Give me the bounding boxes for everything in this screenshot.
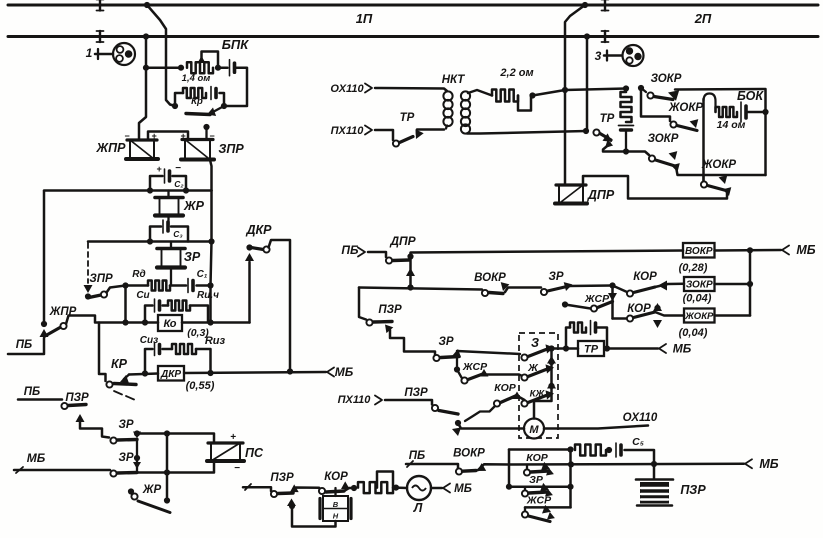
- arrow ЗР-br b: [545, 489, 553, 497]
- node ЖР-bl: [128, 488, 134, 494]
- svg-text:Сиз: Сиз: [140, 335, 158, 346]
- svg-text:1,4 ом: 1,4 ом: [182, 73, 211, 84]
- wire signal-1 terminal: [95, 49, 113, 59]
- contact arm ТР-left: [400, 137, 414, 143]
- contact bar ВОКР-m: [489, 293, 503, 294]
- wire З chain: [534, 349, 552, 419]
- arrow chain b: [547, 381, 556, 389]
- arrow ЗР-br a: [540, 483, 549, 492]
- arrow Ж: [546, 364, 555, 373]
- svg-text:БПК: БПК: [222, 37, 250, 52]
- box ЗОКР: [684, 277, 715, 291]
- svg-text:ЗР: ЗР: [438, 336, 453, 348]
- label ПХ110: [331, 125, 365, 137]
- wire ПЗР-b to М: [458, 423, 524, 429]
- svg-text:Rи.ч: Rи.ч: [197, 290, 219, 301]
- relay ЗПР: [181, 140, 214, 160]
- node x167 top: [164, 430, 170, 436]
- node rail2-right junction: [584, 33, 590, 39]
- label ЗПР contact: [89, 273, 113, 285]
- node lamp row x354: [351, 485, 357, 491]
- node row2m x612: [609, 282, 615, 288]
- node row3 right: [207, 282, 213, 288]
- contact circle КОР-b: [494, 400, 500, 406]
- capacitor С5: [616, 443, 621, 457]
- label Кр: [191, 96, 203, 107]
- node rowA x571: [567, 446, 573, 452]
- insulated joint rail1 left: [97, 0, 104, 11]
- wire КОР-b out: [517, 396, 525, 401]
- wire Сиз mid: [163, 348, 173, 351]
- label C3: [173, 229, 182, 239]
- node ЗПР pivot: [85, 293, 91, 299]
- wire ЗР-b out: [457, 351, 520, 354]
- wire ВОКР-ЗР: [505, 288, 541, 293]
- wire feed top-right: [533, 89, 627, 96]
- node stub above ЗПР: [203, 124, 209, 140]
- wire ЖОКР-low stub: [702, 175, 704, 181]
- svg-text:ЖСР: ЖСР: [526, 495, 552, 507]
- signal head 1: [113, 43, 135, 65]
- resistor ТР loop: [570, 323, 586, 333]
- contact bar КОР-br: [531, 471, 548, 472]
- node chain a: [548, 359, 554, 365]
- arrow ЖОКР-low b: [723, 187, 732, 196]
- wire lamp to МБ: [431, 487, 442, 490]
- chevron МБ mid: [659, 344, 666, 353]
- node З out: [548, 345, 554, 351]
- arrow ПЗР-left: [76, 414, 85, 422]
- wire rowB: [509, 463, 744, 466]
- label ЖСР bottom-right: [526, 495, 552, 507]
- node 14om row start: [143, 65, 149, 71]
- label КР: [111, 357, 128, 371]
- label НКТ: [442, 74, 466, 86]
- arrow ЖПР: [40, 329, 49, 337]
- svg-text:ПС: ПС: [245, 446, 264, 460]
- lamp Л: [407, 476, 431, 500]
- svg-text:Ко: Ко: [163, 318, 176, 330]
- contact arm КОР-b: [501, 396, 517, 403]
- wire row3 a: [126, 284, 149, 287]
- relay coil ЗР: [157, 249, 185, 268]
- node row4 x145: [142, 319, 148, 325]
- label plus C2: [156, 164, 162, 174]
- label 14 ом: [717, 119, 746, 131]
- label 2П: [694, 11, 712, 26]
- arrow ЗР-m: [564, 282, 573, 291]
- arrow ДПР down: [406, 268, 415, 276]
- svg-text:ЗР: ЗР: [548, 271, 563, 283]
- wire ЗОКР to rail: [715, 283, 751, 286]
- contact arm ЖСР-br: [529, 516, 551, 522]
- dashes КР released: [114, 391, 134, 400]
- node ДПР movable: [407, 253, 413, 259]
- label ПБ mid: [341, 243, 359, 257]
- wire cap to corner: [220, 93, 225, 106]
- svg-text:НКТ: НКТ: [442, 74, 466, 86]
- wire bottom row: [525, 506, 571, 509]
- contact bar ПЗР-m: [374, 320, 393, 324]
- wire choke stub: [625, 130, 627, 152]
- arrow ЖОКР-low a: [719, 175, 728, 184]
- label БОК: [737, 89, 764, 103]
- node x750 mid: [747, 281, 753, 287]
- contact circle ЗР-br: [522, 490, 528, 496]
- arrow ЖСР-b: [480, 369, 489, 377]
- label ТР right: [600, 113, 615, 125]
- label ВОКР bottom: [453, 448, 485, 460]
- label БПК: [222, 37, 250, 52]
- label minus ЗПР: [209, 131, 215, 141]
- wire to ЗОКР-low: [626, 152, 649, 156]
- wire ЖР stub top: [167, 191, 169, 198]
- wire ЖОКР-low to ДПР: [583, 176, 727, 199]
- battery БПК: [230, 60, 235, 76]
- wire rail 1П: [8, 4, 818, 7]
- relay ДПР: [555, 185, 587, 204]
- contact circle ЖОКР-low: [701, 181, 707, 187]
- svg-text:МБ: МБ: [335, 365, 354, 379]
- svg-text:−: −: [175, 163, 181, 174]
- label minus C2: [175, 163, 181, 174]
- wire row2: [88, 240, 212, 243]
- relay ПС: [207, 443, 244, 461]
- label МБ bottom: [759, 457, 778, 471]
- contact bar ЗР-b: [441, 357, 459, 358]
- wire ЖСР-b out: [484, 375, 525, 378]
- wire row3-row4 link: [124, 286, 127, 323]
- capacitor C3: [163, 220, 168, 233]
- label ВОКР mid: [474, 272, 506, 284]
- node row1 C2-right: [183, 187, 189, 193]
- label С5: [632, 436, 644, 448]
- label МБ left: [27, 451, 46, 465]
- svg-text:(0,28): (0,28): [679, 262, 708, 274]
- node ЖСР-b top: [454, 366, 460, 372]
- chevron МБ lamp: [443, 484, 450, 493]
- wire ЗР stub top: [170, 242, 172, 249]
- contact bar КР: [114, 384, 136, 385]
- label ОХ110 bottom: [623, 412, 658, 424]
- resistor Кр branch: [183, 88, 206, 98]
- relay ЖПР: [126, 140, 158, 159]
- svg-text:ТР: ТР: [600, 113, 615, 125]
- node chain b: [548, 383, 554, 389]
- svg-text:МБ: МБ: [454, 483, 472, 495]
- wire ДПР down: [409, 257, 412, 288]
- wire ПХ110 bottom: [385, 400, 432, 405]
- svg-text:В: В: [333, 500, 339, 509]
- arrow ЖОКР-up: [690, 119, 699, 128]
- wire ВОКР-b out: [478, 464, 509, 470]
- node ЗР-u movable: [134, 430, 140, 436]
- contact bar ЗР-br: [529, 492, 547, 493]
- wire rowA: [509, 448, 571, 451]
- node ТР loop left: [563, 345, 569, 351]
- wire Сиз left: [145, 349, 153, 373]
- contact circle ЗПР: [101, 291, 107, 297]
- label ЖР: [183, 199, 205, 213]
- svg-text:1: 1: [86, 46, 93, 60]
- contact arm ЗОКР-low: [656, 160, 676, 166]
- node ЖПР pivot: [41, 321, 47, 327]
- arrow ЗПР: [84, 285, 93, 293]
- wire ОХ110: [375, 88, 447, 91]
- label ЖПР contact: [49, 306, 77, 318]
- arrow КОР-br a: [541, 462, 550, 471]
- wire mid row: [509, 485, 571, 488]
- wire rail1 dropper: [147, 5, 175, 106]
- contact circle ТР-right: [593, 129, 599, 135]
- label (0,28): [679, 262, 708, 274]
- wire row ВОКР top: [411, 251, 684, 257]
- label ДКР contact: [245, 223, 272, 237]
- svg-text:+: +: [230, 432, 236, 443]
- node НКТ bottom right: [583, 128, 589, 134]
- node ПЗР-b movable: [455, 420, 461, 426]
- wire lamp row in: [243, 484, 271, 491]
- arrow З: [546, 344, 555, 353]
- wire ПС bottom: [137, 461, 214, 473]
- arrow КОР-2 up: [653, 303, 662, 311]
- contact circle ЗР-u: [110, 437, 116, 443]
- wire ЗР stub bottom: [170, 268, 172, 286]
- contact arm ЗР-m: [548, 286, 570, 291]
- label 2,2 ом: [499, 67, 533, 79]
- arrow ВН loop: [287, 499, 296, 507]
- wire to lamp: [396, 486, 407, 489]
- wire КОР-2 out: [655, 312, 684, 316]
- svg-text:3: 3: [595, 49, 602, 63]
- svg-text:ЖОКР: ЖОКР: [684, 311, 714, 322]
- label ПЗР lamp: [270, 472, 294, 484]
- node КОР-2 arm: [654, 305, 660, 311]
- svg-text:ПХ110: ПХ110: [338, 394, 372, 406]
- svg-text:(0,55): (0,55): [186, 380, 215, 392]
- svg-text:Кр: Кр: [191, 96, 203, 107]
- node row5 x145: [142, 370, 148, 376]
- contact bar ЗР-u: [118, 438, 138, 442]
- node rowB x654: [651, 461, 657, 467]
- node mid row left: [506, 484, 512, 490]
- wire Си right: [190, 306, 208, 323]
- arrow КОР-2 down: [653, 320, 662, 328]
- wire ТР loop: [566, 328, 570, 349]
- chevron ПХ110 bottom: [375, 396, 382, 405]
- svg-text:Н: Н: [333, 512, 339, 521]
- insulated joint rail2 left: [97, 31, 104, 42]
- wire КОР out: [344, 488, 354, 491]
- contact circle ЖСР-br: [522, 511, 528, 517]
- relay coil ЖР: [155, 198, 183, 216]
- label Rд: [132, 269, 145, 280]
- label ЖОКР upper: [668, 102, 704, 114]
- arrow ВОКР-b: [477, 463, 486, 471]
- resistor lamp: [358, 482, 393, 493]
- contact circle ЗОКР-up: [647, 92, 653, 98]
- wire signal-3 terminal: [604, 51, 622, 61]
- resistor 2,2 ом: [492, 90, 518, 102]
- svg-text:(0,04): (0,04): [683, 293, 712, 305]
- wire row5 b: [184, 372, 326, 373]
- arrow КОР-br b: [546, 468, 554, 476]
- wire tap loop: [202, 52, 219, 68]
- node row4 x125: [122, 319, 128, 325]
- svg-text:С₅: С₅: [632, 436, 644, 448]
- label ЗР coil: [184, 250, 201, 264]
- contact circle КР: [106, 381, 112, 387]
- wire row2m: [359, 288, 482, 290]
- node row1 C2-left: [147, 187, 153, 193]
- node feed x626: [623, 85, 629, 91]
- wire ПЗР to ЗР: [80, 417, 109, 438]
- contact arm ЖСР-b: [468, 374, 484, 380]
- label ЗР bottom-mid: [438, 336, 453, 348]
- label ДПР contact: [389, 234, 416, 248]
- svg-text:ЖОКР: ЖОКР: [668, 102, 704, 114]
- label ПС: [245, 446, 264, 460]
- chevron МБ bottom: [745, 459, 752, 468]
- label КОР mid2: [627, 303, 651, 315]
- svg-text:КОР: КОР: [526, 452, 548, 464]
- wire top to БОК corner: [675, 89, 766, 175]
- label ПБ upper: [16, 339, 32, 351]
- wire ПЗР-m out: [390, 330, 435, 355]
- box ДКР: [158, 366, 184, 381]
- svg-text:ЗОКР: ЗОКР: [651, 73, 682, 85]
- arrow ЗР-b: [452, 349, 461, 358]
- contact bar ПЗР-b: [439, 411, 458, 415]
- svg-text:КОР: КОР: [494, 382, 516, 394]
- contact arm Ж: [528, 370, 546, 377]
- node ТР out: [604, 345, 610, 351]
- label Rи.ч: [197, 290, 219, 301]
- svg-text:ЗОКР: ЗОКР: [686, 280, 713, 291]
- svg-text:ЗОКР: ЗОКР: [648, 133, 679, 145]
- node rail1-right junction: [582, 2, 588, 8]
- wire stub ЖСР-br: [524, 507, 526, 511]
- label ЗР upper-left: [118, 419, 133, 431]
- motor М: [524, 419, 544, 439]
- contact bar ВОКР-b: [463, 469, 477, 473]
- contact circle ЖСР-m: [591, 305, 597, 311]
- group box З: [519, 333, 558, 438]
- svg-text:МБ: МБ: [759, 457, 778, 471]
- svg-text:ПБ: ПБ: [341, 243, 359, 257]
- label ПХ110 bottom: [338, 394, 372, 406]
- label ЗОКР upper: [651, 73, 682, 85]
- contact circle КОР-m: [627, 290, 633, 296]
- wire ЗОКР-up stub: [641, 88, 646, 92]
- contact arm КОР-2: [634, 312, 656, 318]
- wire tower vertical: [702, 99, 705, 181]
- wire Си left: [145, 306, 153, 323]
- contact circle ВОКР-m: [482, 290, 488, 296]
- node feed x641: [638, 85, 644, 91]
- svg-text:ЖПР: ЖПР: [96, 141, 127, 155]
- chevron ПБ mid: [358, 248, 365, 257]
- label КЖ: [530, 389, 546, 400]
- label (0,3): [187, 327, 209, 339]
- label Л: [413, 501, 423, 515]
- contact arm ЖПР: [45, 328, 60, 337]
- wire ЗПР to row3: [107, 286, 126, 293]
- wire x167 vertical: [166, 434, 169, 501]
- node rail1-left junction: [144, 2, 150, 8]
- wire ЖОКР to rail: [715, 314, 751, 317]
- resistor С5 row: [575, 445, 606, 456]
- capacitor Сиз: [155, 343, 160, 356]
- contact arm ЖОКР-low: [708, 186, 727, 191]
- node 2,2 right: [529, 92, 535, 98]
- contact arm ЖСР-m: [598, 302, 613, 308]
- insulated joint rail2 right: [602, 31, 609, 42]
- wire ПХ110: [375, 130, 393, 140]
- arrow КЖ: [546, 390, 555, 399]
- svg-text:Л: Л: [413, 501, 423, 515]
- wire row2m left drop: [359, 288, 366, 320]
- svg-text:ПЗР: ПЗР: [680, 483, 706, 497]
- capacitor ТР loop: [591, 321, 596, 335]
- contact circle ДКР: [263, 246, 269, 252]
- contact circle КЖ: [521, 400, 527, 406]
- svg-text:ТР: ТР: [400, 112, 415, 124]
- box ЖОКР: [684, 309, 715, 323]
- arrow ЗР-u: [133, 432, 141, 439]
- svg-text:ЗР: ЗР: [184, 250, 201, 264]
- svg-text:ПБ: ПБ: [16, 339, 32, 351]
- label МБ right-top: [796, 243, 815, 257]
- electromagnet ПЗР: [636, 464, 673, 506]
- wire 2,2 bypass: [518, 96, 531, 111]
- svg-text:−: −: [124, 131, 130, 141]
- svg-text:ДКР: ДКР: [245, 223, 272, 237]
- wire ТР-right out: [603, 140, 626, 152]
- contact circle ПЗР-lamp: [271, 491, 277, 497]
- svg-text:ЖР: ЖР: [142, 484, 162, 496]
- svg-text:ВОКР: ВОКР: [453, 448, 485, 460]
- wire secondary top: [468, 90, 492, 96]
- arrow Кр contact: [207, 106, 224, 116]
- svg-text:ПБ: ПБ: [24, 386, 40, 398]
- label Ж: [527, 362, 539, 374]
- svg-text:МБ: МБ: [27, 451, 46, 465]
- label ПЗР mid: [378, 304, 402, 316]
- wire Сиз right: [196, 349, 211, 373]
- wire to КОР-2: [613, 317, 627, 320]
- svg-text:КОР: КОР: [633, 271, 657, 283]
- svg-text:С₂: С₂: [174, 179, 184, 189]
- node rowB x571: [568, 461, 574, 467]
- arrow ДКР: [245, 253, 254, 261]
- chevron МБ row5: [327, 368, 334, 377]
- wire row3 c: [197, 284, 211, 287]
- wire БПК right side: [224, 68, 247, 106]
- arrow КОР-b: [513, 392, 522, 400]
- label ПЗР magnet: [680, 483, 706, 497]
- resistor Rи.ч: [168, 301, 190, 311]
- contact circle ЗР-m: [541, 289, 547, 295]
- wire to battery: [218, 66, 228, 69]
- contact circle ПЗР-left: [61, 403, 67, 409]
- contact arm ЗОКР-up: [654, 97, 673, 100]
- label ЖСР bottom: [462, 361, 488, 373]
- wire stub КОР-br: [526, 465, 528, 470]
- node row2m x410: [407, 284, 413, 290]
- svg-text:ПХ110: ПХ110: [331, 125, 365, 137]
- box ВОКР: [683, 243, 715, 258]
